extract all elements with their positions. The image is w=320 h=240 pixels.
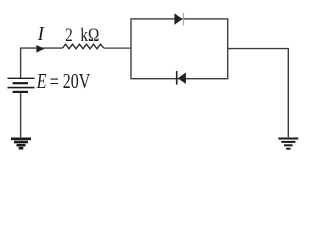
diode D1 cathode bar (gray) (183, 13, 185, 26)
diode D2 cathode bar (176, 71, 178, 85)
diode D1 triangle (top branch, pointing right) (174, 13, 182, 25)
diode D2 triangle (bottom branch, pointing left) (178, 72, 186, 84)
battery E: short plate 1 (13, 82, 28, 84)
wire: resistor to rectangle left edge (104, 47, 131, 49)
right ground symbol (278, 139, 298, 149)
svg-text:2: 2 (65, 25, 73, 46)
wire: battery top to top-left corner (20, 48, 22, 78)
wire: top horizontal from corner to resistor (20, 47, 63, 49)
rectangle of parallel diode branches (131, 19, 228, 79)
svg-text:I: I (37, 23, 46, 45)
battery E: short plate 2 (13, 91, 28, 93)
resistor R 2k zigzag (63, 44, 104, 49)
wire: battery bottom to left ground (20, 93, 22, 137)
svg-text:kΩ: kΩ (80, 25, 99, 46)
battery E: long plate 1 (8, 77, 35, 79)
left ground symbol (11, 139, 31, 148)
svg-text:= 20V: = 20V (50, 70, 91, 94)
current arrow on wire (36, 45, 44, 53)
wire: rectangle right edge to right corner and down (228, 49, 289, 138)
battery E: long plate 2 (8, 87, 35, 89)
svg-text:E: E (36, 70, 47, 94)
